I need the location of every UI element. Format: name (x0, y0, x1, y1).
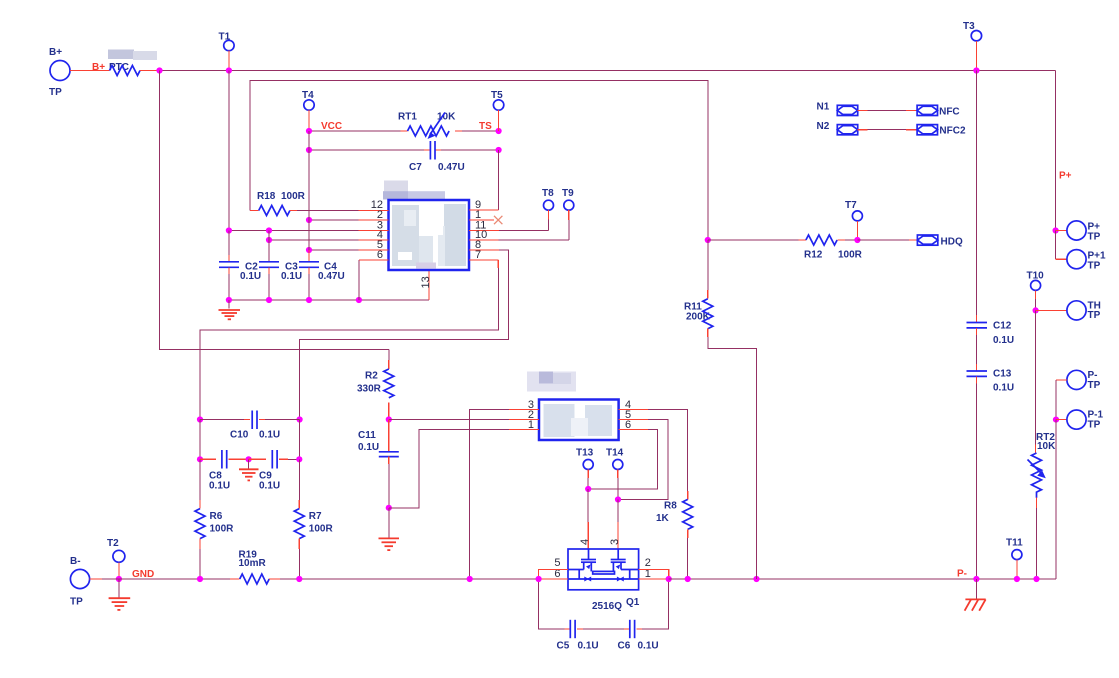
port N2 (817, 121, 858, 135)
IC2 right pin stubs (619, 399, 648, 431)
ground symbol C8/C9 (239, 459, 259, 480)
svg-text:C5: C5 (557, 641, 570, 652)
svg-text:100R: 100R (838, 250, 863, 261)
wire pin8 down-left (300, 250, 509, 420)
Q1 pin6 stub (539, 578, 568, 580)
wire P- column to rail (1055, 420, 1057, 579)
wire IC2 pin5 to T14 (618, 420, 668, 500)
svg-text:0.47U: 0.47U (438, 162, 465, 173)
svg-text:R6: R6 (210, 511, 223, 522)
resistor R8 (656, 491, 693, 579)
resistor R12 (799, 235, 863, 261)
port N1 (817, 102, 858, 116)
IC U1 box (389, 200, 470, 270)
svg-text:C13: C13 (993, 369, 1012, 380)
testpad P+ TP (1056, 221, 1101, 243)
svg-text:4: 4 (579, 539, 591, 545)
svg-text:0.1U: 0.1U (259, 481, 280, 492)
capacitor C3 (259, 262, 302, 282)
blur patch IC2 name (527, 372, 576, 392)
wire pin11 to T8 (499, 230, 549, 232)
testpoint T3 (963, 21, 982, 74)
wire bottom rail (102, 578, 230, 580)
node C11 bottom (386, 505, 392, 511)
svg-text:0.1U: 0.1U (993, 335, 1014, 346)
svg-text:10K: 10K (1037, 441, 1056, 452)
thermistor RT1 (398, 112, 456, 140)
testpad B+ TP (49, 47, 70, 98)
svg-text:0.1U: 0.1U (281, 271, 302, 282)
svg-text:1K: 1K (656, 513, 670, 524)
svg-text:TP: TP (1088, 310, 1101, 321)
svg-text:TP: TP (70, 597, 83, 608)
svg-text:RT1: RT1 (398, 112, 417, 123)
svg-text:C12: C12 (993, 321, 1012, 332)
svg-text:T8: T8 (542, 188, 554, 199)
port NFC (917, 105, 960, 117)
resistor R11 (684, 240, 713, 337)
testpoint T8 (542, 188, 554, 231)
svg-text:6: 6 (377, 249, 383, 261)
capacitor C9 (246, 450, 303, 492)
svg-text:C10: C10 (230, 430, 249, 441)
wire left column x159 down (160, 71, 389, 350)
svg-text:C6: C6 (618, 641, 631, 652)
svg-text:B+: B+ (92, 62, 105, 73)
Q1 pin1 stub (639, 578, 669, 580)
svg-text:B+: B+ (49, 47, 62, 58)
capacitor C7 (409, 141, 465, 173)
svg-text:3: 3 (609, 539, 621, 545)
wire R11 jog down to rail (708, 337, 757, 579)
resistor R2 (357, 350, 394, 420)
wire C2 column (228, 231, 230, 256)
wire rail mid (280, 578, 539, 580)
wires caps to gnd rail (228, 267, 230, 274)
svg-text:0.1U: 0.1U (358, 442, 379, 453)
capacitor C5 (557, 620, 599, 652)
testpoint T4 (302, 90, 314, 131)
svg-text:GND: GND (132, 569, 154, 580)
svg-text:R12: R12 (804, 250, 823, 261)
svg-text:10mR: 10mR (239, 558, 267, 569)
capacitor C13 (967, 369, 1015, 394)
fuse PTC (109, 62, 140, 76)
resistor R18 (250, 191, 306, 216)
svg-text:0.1U: 0.1U (209, 481, 230, 492)
svg-text:TP: TP (1088, 420, 1101, 431)
svg-text:R8: R8 (664, 501, 677, 512)
svg-text:0.1U: 0.1U (578, 641, 599, 652)
capacitor C12 (967, 321, 1015, 347)
wire B- stub (90, 578, 102, 580)
svg-text:TP: TP (1088, 261, 1101, 272)
svg-text:HDQ: HDQ (941, 237, 963, 248)
IC U2 box (539, 400, 619, 441)
IC2 left pin stubs (509, 399, 539, 431)
svg-text:N1: N1 (817, 102, 830, 113)
testpoint T7 (845, 200, 862, 243)
wire T7 to HDQ port (857, 239, 908, 241)
wire IC2 pin3 down to rail (470, 410, 509, 580)
svg-text:100R: 100R (210, 524, 235, 535)
ground symbol C11 (379, 508, 400, 550)
svg-text:N2: N2 (817, 121, 830, 132)
capacitor C6 loop wire right (642, 579, 669, 629)
svg-text:B-: B- (70, 556, 81, 567)
resistor R6 (195, 459, 234, 579)
wire VCC row (309, 130, 401, 132)
svg-text:T14: T14 (606, 448, 624, 459)
testpad B- TP (70, 556, 90, 608)
testpoint T1 (219, 32, 235, 74)
svg-text:2516Q: 2516Q (592, 601, 622, 612)
svg-text:T3: T3 (963, 21, 975, 32)
svg-text:7: 7 (475, 249, 481, 261)
svg-text:C7: C7 (409, 162, 422, 173)
wire PTC to junction (140, 70, 160, 72)
wire pin6 down to rail (358, 260, 360, 300)
wire C10 right col down (298, 420, 300, 460)
svg-text:T9: T9 (562, 188, 574, 199)
svg-text:R18: R18 (257, 191, 276, 202)
capacitor C10 (197, 411, 303, 441)
svg-text:0.47U: 0.47U (318, 271, 345, 282)
wire pin10 to T9 (499, 239, 569, 241)
capacitor C2 (219, 262, 261, 282)
resistor R7 (294, 459, 333, 579)
transistor Q1 (554, 539, 650, 612)
svg-text:T13: T13 (576, 448, 594, 459)
resistor R19 (230, 550, 280, 585)
testpoint T11 (1006, 538, 1023, 583)
ground symbol mid (219, 300, 241, 319)
wire pin4 row (269, 239, 359, 241)
svg-text:R2: R2 (365, 371, 378, 382)
wire C3 column (268, 231, 270, 262)
IC1 right pin stubs (469, 199, 499, 261)
testpoint T9 (562, 188, 574, 240)
testpad TH TP (1036, 301, 1101, 322)
svg-text:0.1U: 0.1U (240, 271, 261, 282)
wire T5 column down to pin9 (498, 150, 500, 210)
svg-text:R7: R7 (309, 511, 322, 522)
wire HDQ loop top y80 (250, 81, 708, 241)
svg-text:6: 6 (625, 419, 631, 431)
svg-text:P+: P+ (1059, 171, 1072, 182)
Q1 pin2 wrap wire (639, 570, 669, 580)
svg-text:NFC2: NFC2 (939, 126, 966, 137)
ground symbol T2 (109, 579, 131, 610)
wire VCC column (308, 131, 310, 250)
svg-text:0.1U: 0.1U (259, 430, 280, 441)
wire pin12 row (297, 210, 359, 212)
svg-text:TS: TS (479, 121, 492, 132)
svg-text:Q1: Q1 (626, 597, 640, 608)
capacitor C8 (197, 450, 249, 492)
svg-text:T2: T2 (107, 538, 119, 549)
wire IC2 pin4 to R8 column (648, 410, 688, 492)
svg-text:0.1U: 0.1U (993, 383, 1014, 394)
svg-text:TP: TP (49, 87, 62, 98)
testpoint T2 (107, 538, 125, 582)
svg-text:100R: 100R (281, 191, 306, 202)
svg-text:1: 1 (528, 419, 534, 431)
testpad P- TP (1056, 370, 1101, 391)
svg-text:13: 13 (420, 276, 432, 288)
wire N2 to NFC2 (858, 129, 868, 131)
svg-text:100R: 100R (309, 524, 334, 535)
svg-text:NFC: NFC (939, 106, 960, 117)
node junction B+/left column (156, 67, 162, 73)
capacitor C4 (299, 262, 345, 282)
wire pin7 down-left (497, 260, 499, 268)
svg-text:C11: C11 (358, 430, 376, 441)
port NFC2 (917, 125, 966, 137)
thermistor RT2 (1028, 310, 1057, 582)
svg-text:T11: T11 (1006, 538, 1023, 549)
wire C5 to C6 (583, 628, 624, 630)
wire C12 column (975, 71, 977, 316)
wire gnd rail mid (229, 299, 429, 301)
wire pin5 row (309, 249, 359, 251)
wire C12 to C13 (975, 328, 977, 335)
testpoint T10 (1027, 270, 1045, 313)
node HDQ junction (705, 237, 711, 243)
wire P+ column (1055, 71, 1057, 231)
svg-text:TP: TP (1088, 232, 1101, 243)
wire C13 to rail (975, 376, 977, 383)
svg-text:P-: P- (957, 569, 967, 580)
node R2/C11/pin2 (386, 416, 392, 422)
blur patch IC1 name (383, 181, 445, 200)
wire P- column (1055, 380, 1057, 420)
svg-text:T7: T7 (845, 200, 857, 211)
chassis ground P- (965, 579, 986, 611)
testpoint T14 (606, 448, 624, 550)
IC1 left pin stubs (359, 199, 389, 261)
svg-text:330R: 330R (357, 384, 382, 395)
wire R2 node to IC2 pin2 (389, 419, 509, 421)
capacitor C11 (358, 420, 399, 508)
capacitor C6 (618, 620, 659, 652)
wire C10 left col down (199, 420, 201, 460)
testpad P-1 TP (1056, 410, 1104, 431)
wire IC2 pin1 loop (389, 430, 509, 508)
blur patch above PTC (108, 50, 157, 61)
wire main B+ top line (160, 70, 1056, 72)
wire RT1 to TS (455, 130, 462, 132)
wire pin13 stub (428, 270, 430, 300)
testpoint T5 (491, 90, 504, 131)
testpoint T13 (576, 448, 594, 550)
wire rail right of Q1 (669, 578, 1056, 580)
wire HDQ row left (708, 239, 799, 241)
wire pin3 row (229, 230, 359, 232)
svg-text:VCC: VCC (321, 121, 342, 132)
Q1 pin5 wrap wire (539, 570, 568, 580)
capacitor C5 loop wire left (539, 579, 565, 629)
wire T1 column down to pin3 line (228, 71, 230, 231)
port HDQ (917, 235, 963, 248)
wire N1 to NFC (858, 109, 868, 111)
svg-text:TP: TP (1088, 380, 1101, 391)
no connect x pin1 (494, 216, 502, 224)
wire B+ to PTC (70, 70, 110, 72)
testpad P+1 TP (1056, 231, 1106, 272)
wire C7 row (309, 149, 424, 151)
svg-text:0.1U: 0.1U (638, 641, 659, 652)
wire pin2 row (309, 219, 359, 221)
wire IC2 pin6 to T13 (588, 430, 657, 490)
